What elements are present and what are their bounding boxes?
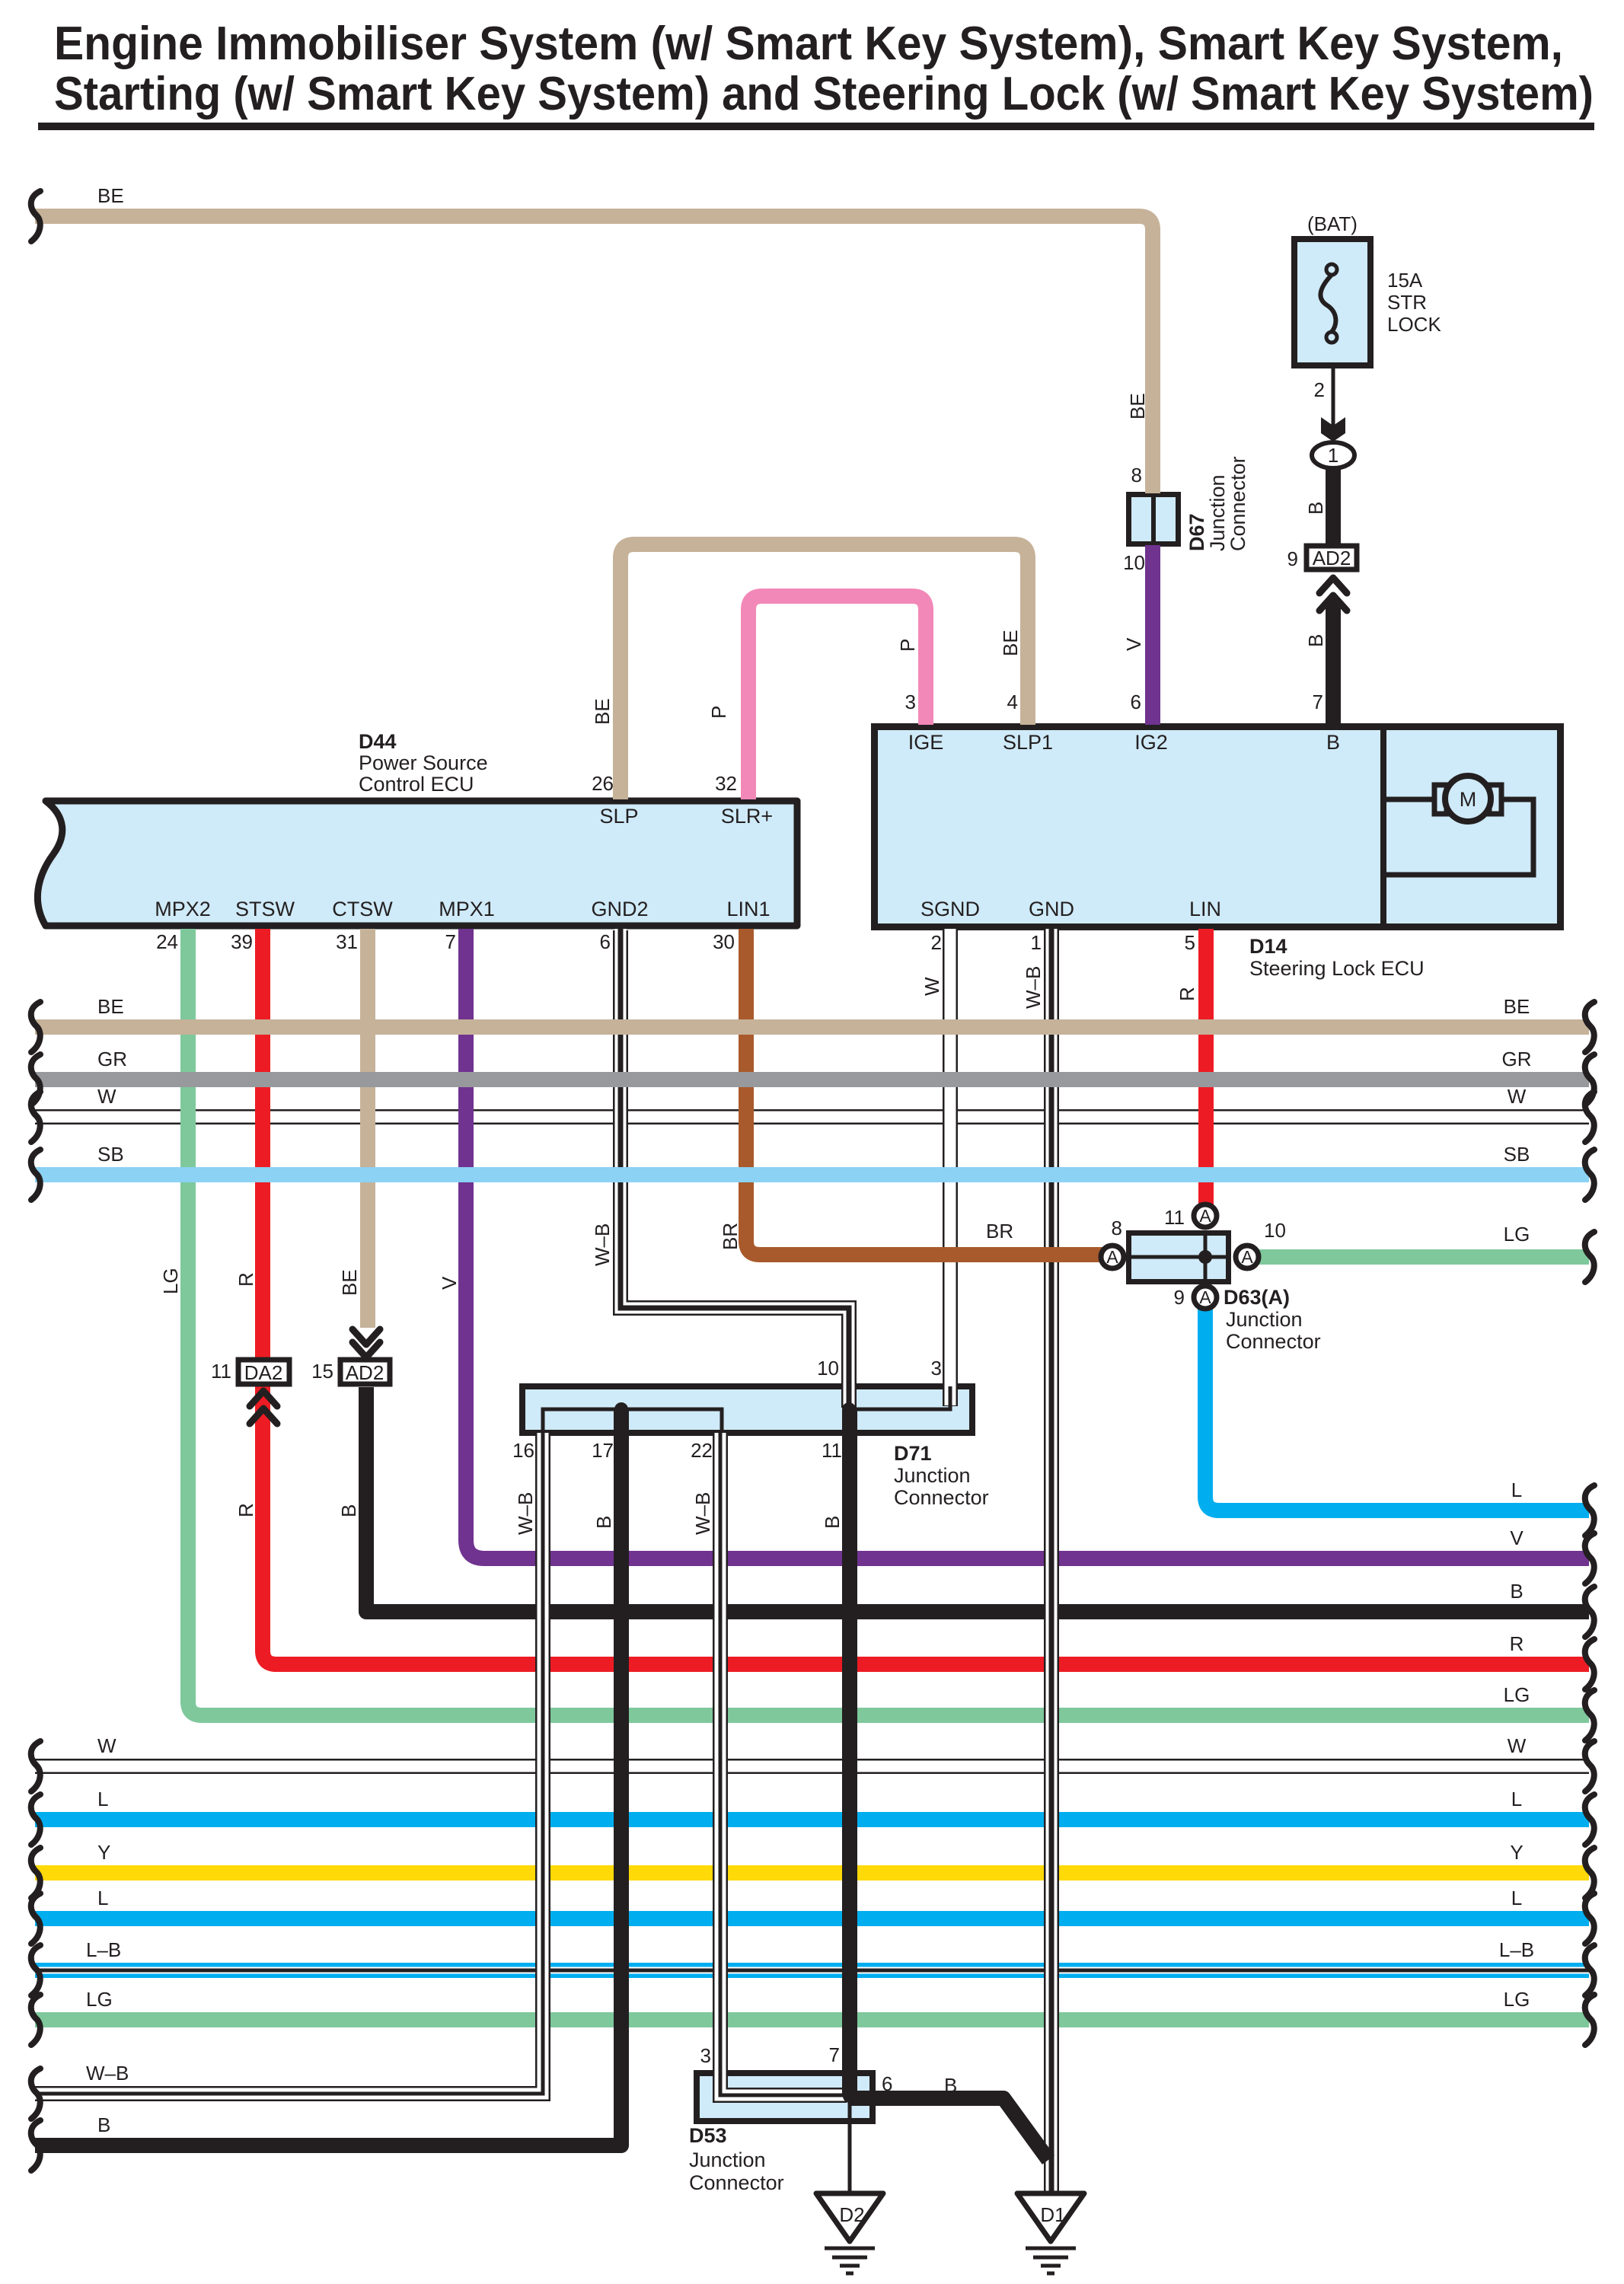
svg-text:L–B: L–B [86,1938,121,1961]
svg-text:W: W [920,977,943,996]
svg-text:Junction: Junction [1226,1308,1303,1331]
svg-text:11: 11 [211,1360,231,1383]
svg-text:17: 17 [592,1439,614,1462]
svg-text:D44: D44 [359,730,397,753]
svg-text:Starting (w/ Smart Key System): Starting (w/ Smart Key System) and Steer… [54,68,1594,120]
svg-text:3: 3 [905,691,916,713]
svg-text:SB: SB [97,1143,124,1166]
svg-text:IGE: IGE [908,731,944,754]
svg-text:32: 32 [715,772,737,795]
svg-text:26: 26 [592,772,614,795]
svg-text:B: B [97,2113,110,2136]
svg-text:B: B [592,1516,615,1529]
svg-text:SGND: SGND [920,898,980,920]
svg-text:6: 6 [882,2072,892,2095]
svg-text:3: 3 [700,2044,711,2067]
svg-text:IG2: IG2 [1134,731,1168,754]
svg-text:BE: BE [97,995,124,1018]
svg-text:SLR+: SLR+ [721,805,773,828]
svg-text:Connector: Connector [894,1486,989,1509]
svg-text:B: B [337,1504,360,1517]
svg-text:LG: LG [86,1988,113,2011]
svg-text:P: P [707,706,730,719]
svg-text:CTSW: CTSW [332,898,393,920]
svg-text:10: 10 [1123,551,1145,574]
svg-text:W: W [97,1734,116,1757]
svg-text:D71: D71 [894,1442,932,1465]
svg-text:V: V [1122,637,1145,651]
svg-text:Engine Immobiliser System (w/: Engine Immobiliser System (w/ Smart Key … [54,18,1563,70]
svg-text:D53: D53 [689,2124,727,2147]
svg-text:B: B [821,1516,844,1529]
svg-text:D67: D67 [1185,513,1208,551]
svg-text:Connector: Connector [1227,456,1249,551]
svg-text:W–B: W–B [591,1223,614,1266]
svg-text:B: B [1510,1580,1523,1603]
svg-text:L: L [1511,1887,1522,1909]
svg-text:W–B: W–B [1022,966,1045,1009]
svg-text:SLP1: SLP1 [1003,731,1053,754]
svg-text:B: B [1304,502,1327,515]
svg-text:GR: GR [1502,1048,1532,1070]
svg-text:MPX2: MPX2 [155,898,211,920]
svg-text:B: B [944,2074,957,2097]
svg-text:W–B: W–B [514,1492,537,1535]
svg-text:2: 2 [931,931,942,954]
svg-text:BE: BE [338,1269,361,1296]
svg-text:D2: D2 [839,2203,864,2226]
svg-text:W: W [1508,1734,1527,1757]
svg-text:L–B: L–B [1499,1938,1534,1961]
svg-text:BR: BR [719,1223,742,1250]
svg-text:7: 7 [445,930,456,953]
svg-text:5: 5 [1185,931,1195,954]
svg-text:24: 24 [156,930,178,953]
svg-text:SLP: SLP [599,805,638,828]
svg-text:BE: BE [1126,393,1149,419]
svg-text:(BAT): (BAT) [1307,212,1358,235]
svg-text:R: R [1510,1632,1524,1655]
svg-text:7: 7 [1313,691,1323,713]
svg-text:LIN1: LIN1 [726,898,770,920]
svg-text:9: 9 [1287,547,1298,570]
svg-text:16: 16 [512,1439,534,1462]
svg-text:GR: GR [97,1048,127,1070]
svg-text:10: 10 [1264,1219,1286,1242]
svg-text:LOCK: LOCK [1387,313,1441,336]
svg-text:LG: LG [1504,1988,1530,2011]
svg-text:W: W [1508,1085,1527,1108]
svg-text:31: 31 [336,930,358,953]
svg-text:V: V [1510,1526,1523,1549]
svg-text:6: 6 [1131,691,1141,713]
svg-text:D14: D14 [1249,935,1287,958]
svg-text:GND: GND [1029,898,1074,920]
svg-text:A: A [1199,1206,1211,1226]
svg-text:8: 8 [1112,1217,1122,1239]
svg-text:L: L [1511,1479,1522,1501]
svg-text:STSW: STSW [235,898,295,920]
svg-text:MPX1: MPX1 [439,898,495,920]
svg-text:L: L [97,1788,108,1810]
svg-text:Power Source: Power Source [359,751,488,774]
svg-text:R: R [235,1272,257,1287]
svg-text:V: V [438,1276,461,1290]
svg-text:W–B: W–B [691,1492,714,1535]
svg-text:LG: LG [1504,1223,1530,1246]
svg-text:9: 9 [1174,1286,1185,1309]
svg-text:W: W [97,1085,116,1108]
svg-text:4: 4 [1007,691,1018,713]
svg-text:A: A [1106,1247,1118,1267]
svg-text:22: 22 [691,1439,713,1462]
svg-text:2: 2 [1314,378,1325,401]
svg-text:BR: BR [986,1220,1013,1242]
svg-text:BE: BE [1504,995,1530,1018]
svg-text:11: 11 [822,1439,842,1462]
svg-text:B: B [1326,731,1340,754]
svg-text:10: 10 [817,1357,839,1380]
svg-text:BE: BE [999,630,1022,656]
svg-text:M: M [1460,788,1477,811]
svg-text:1: 1 [1328,444,1338,467]
svg-text:Junction: Junction [1206,474,1229,551]
svg-text:7: 7 [829,2043,840,2066]
svg-text:LIN: LIN [1189,898,1221,920]
svg-text:LG: LG [1504,1683,1530,1706]
svg-text:3: 3 [931,1357,942,1380]
svg-text:8: 8 [1131,464,1142,486]
svg-text:Junction: Junction [894,1464,971,1487]
svg-text:STR: STR [1387,291,1427,314]
svg-text:15: 15 [311,1360,333,1383]
svg-text:L: L [1511,1788,1522,1810]
svg-text:1: 1 [1031,931,1042,954]
svg-text:AD2: AD2 [346,1361,384,1384]
svg-text:BE: BE [97,184,124,207]
svg-text:BE: BE [591,698,614,725]
svg-text:R: R [1176,987,1198,1001]
svg-text:AD2: AD2 [1313,547,1351,569]
svg-text:30: 30 [713,930,735,953]
svg-text:15A: 15A [1387,269,1423,292]
svg-text:P: P [896,639,919,652]
svg-text:Control ECU: Control ECU [359,773,474,796]
svg-text:Connector: Connector [689,2171,784,2194]
svg-text:Y: Y [97,1841,110,1864]
svg-text:R: R [235,1503,257,1517]
svg-text:LG: LG [159,1268,182,1294]
svg-text:B: B [1304,634,1327,647]
svg-text:Y: Y [1510,1841,1523,1864]
svg-text:Steering Lock ECU: Steering Lock ECU [1249,957,1425,980]
svg-text:A: A [1199,1287,1211,1307]
svg-text:6: 6 [600,930,611,953]
svg-text:39: 39 [231,930,253,953]
svg-text:Connector: Connector [1226,1330,1321,1353]
svg-text:D63(A): D63(A) [1224,1286,1290,1309]
svg-text:L: L [97,1887,108,1909]
svg-text:GND2: GND2 [591,898,648,920]
svg-text:W–B: W–B [86,2062,129,2085]
svg-text:Junction: Junction [689,2148,766,2171]
svg-text:DA2: DA2 [244,1361,283,1384]
svg-text:A: A [1241,1247,1253,1267]
svg-text:D1: D1 [1040,2203,1065,2226]
svg-text:11: 11 [1164,1206,1185,1229]
svg-text:SB: SB [1504,1143,1530,1166]
